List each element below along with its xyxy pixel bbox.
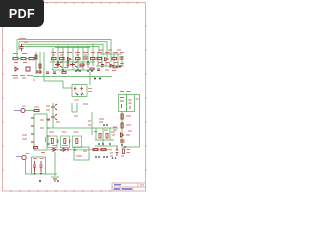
diode D7	[63, 148, 68, 151]
wire row left	[12, 52, 44, 74]
PDF badge	[0, 0, 44, 27]
transistor Q2	[70, 62, 78, 68]
label U2	[76, 151, 87, 156]
wire horizontal mid	[33, 76, 112, 78]
wire to ground	[51, 152, 59, 177]
resistor R3	[29, 58, 34, 60]
label under wire	[34, 78, 90, 82]
diode D8	[110, 64, 113, 67]
label row mid	[51, 53, 95, 56]
label R row	[13, 54, 27, 63]
transistor Q3	[51, 104, 57, 110]
row above title wires	[92, 149, 112, 151]
diode D2	[68, 58, 72, 61]
lead P2	[16, 156, 22, 158]
resistor R14	[93, 148, 98, 150]
diode D9	[58, 140, 70, 144]
junction dots relay row	[60, 149, 76, 151]
resistor R11	[121, 123, 123, 128]
wire verticals mid cluster	[50, 44, 95, 73]
junction dots B1	[77, 94, 83, 96]
label near top of lower mid	[74, 104, 88, 116]
capacitor C14	[97, 69, 100, 71]
resistor R10	[121, 114, 123, 119]
title block text	[114, 184, 121, 186]
label box	[33, 153, 45, 159]
junction dots box	[34, 173, 42, 182]
label mid lower	[54, 64, 90, 68]
wire verticals right cluster	[96, 52, 124, 68]
label diodes	[52, 145, 68, 147]
resistor R4	[52, 58, 57, 60]
capacitor C4	[129, 100, 132, 109]
diode D4	[120, 98, 124, 109]
label row right	[97, 52, 124, 54]
capacitor C2	[84, 57, 88, 59]
junction dots tail	[112, 157, 117, 159]
junction dots right chain	[121, 144, 126, 148]
IC U1 box	[34, 114, 47, 150]
relay K1 coil	[51, 139, 53, 144]
label P2	[26, 153, 30, 155]
capacitor C10	[101, 65, 104, 67]
resistor R20	[62, 72, 66, 74]
capacitor C13	[53, 72, 56, 74]
connector pin P2	[22, 155, 26, 159]
junction dots lower mid	[98, 124, 111, 145]
right power block wires	[121, 95, 140, 148]
title block outline	[112, 183, 146, 191]
frame ticks	[2, 2, 147, 192]
label bottom row left	[12, 76, 33, 79]
resistor R19	[37, 71, 41, 73]
label R23	[34, 106, 39, 108]
relay K2 box	[61, 136, 70, 148]
lower mid right cluster wires	[92, 128, 118, 146]
label P1	[22, 105, 26, 107]
capacitor C11	[119, 65, 122, 68]
capacitor C15	[116, 147, 119, 157]
title block mark	[140, 184, 144, 186]
resistor R8	[97, 58, 102, 60]
label far right row	[105, 69, 116, 72]
labels right chain	[113, 116, 132, 135]
resistor R17	[35, 55, 37, 59]
junction dot ground	[57, 180, 59, 182]
capacitor C7	[40, 161, 43, 172]
capacitor C3	[120, 57, 124, 59]
label Q3 Q4	[46, 106, 60, 122]
relay K3 box	[73, 136, 82, 148]
resistor R9	[112, 58, 117, 60]
frame border	[3, 3, 146, 192]
resistor R12	[99, 134, 101, 139]
label right lower	[98, 50, 124, 64]
resistor R13	[106, 134, 108, 139]
label B1	[74, 89, 92, 101]
resistor R18	[39, 64, 41, 68]
wire bus loop top	[17, 40, 111, 63]
label tail cluster	[121, 150, 130, 157]
relay K1 box	[48, 136, 57, 148]
IC U1 pins	[31, 118, 50, 144]
resistor R21	[90, 68, 94, 70]
labels relay row	[46, 132, 79, 142]
resistor R24	[34, 147, 38, 149]
resistor R6	[76, 58, 81, 60]
resistor R22	[113, 66, 117, 68]
resistor R15	[101, 148, 106, 150]
relay K2 coil	[64, 139, 66, 144]
wire Q chain	[47, 103, 92, 135]
wire P1 to IC	[25, 110, 34, 112]
capacitor C12	[46, 72, 49, 74]
capacitor C9	[67, 64, 70, 66]
label VCC	[19, 39, 28, 43]
resistor R23	[34, 110, 39, 112]
connector pin P1	[21, 108, 25, 112]
wire L-bend	[44, 70, 90, 88]
label R14 R15	[110, 153, 113, 156]
capacitor C5	[120, 140, 125, 142]
lower left box wires	[32, 157, 58, 174]
diode D1	[15, 67, 30, 71]
capacitor C1	[20, 44, 24, 51]
junction dots on wire	[75, 70, 101, 79]
capacitor C8	[57, 64, 60, 66]
diode D6	[53, 148, 56, 151]
transistor Q4	[51, 114, 57, 120]
transistor Q1	[55, 62, 63, 68]
optocoupler U2 box	[74, 147, 89, 160]
label right block top	[120, 92, 139, 100]
lead P1	[14, 110, 21, 112]
bridge rectifier B1	[74, 87, 84, 95]
regulator box IC3	[127, 95, 135, 112]
regulator box IC2	[119, 95, 127, 112]
diode D5	[121, 133, 124, 137]
relay K3 coil	[76, 139, 78, 144]
label U1	[22, 120, 44, 139]
resistor R1	[13, 58, 18, 60]
junction dots row	[95, 156, 108, 158]
ground symbol	[53, 179, 57, 181]
resistor R25	[123, 149, 125, 154]
wire relay bottoms	[48, 149, 92, 151]
resistor R7	[91, 58, 96, 60]
resistor R16	[80, 64, 84, 66]
resistor R5	[60, 58, 65, 60]
wire box around B1	[72, 85, 87, 97]
capacitor C6	[33, 161, 36, 172]
wire P2 down	[26, 159, 47, 174]
title block text row2	[114, 188, 133, 190]
diode D3	[105, 58, 109, 61]
resistor R2	[21, 58, 26, 60]
junction dots mid	[57, 61, 89, 71]
labels lower mid right	[88, 119, 115, 135]
